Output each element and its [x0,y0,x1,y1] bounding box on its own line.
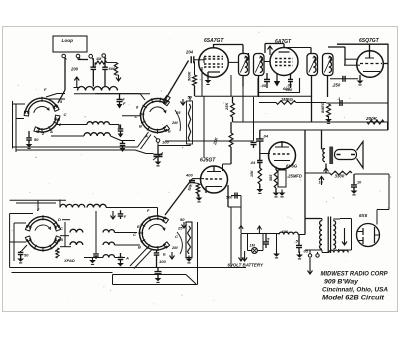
wire AVC from 500K [195,95,312,97]
svg-text:.04: .04 [250,161,256,165]
long vertical mid [203,96,205,158]
B minus arrow [308,258,313,274]
svg-text:XPAD: XPAD [63,258,75,263]
pilot lamp [247,234,249,251]
wire socket X2 top to trimmer diagonal [162,99,166,100]
svg-text:E: E [168,129,171,134]
chassis diagonal lower [130,247,148,266]
svg-text:100: 100 [159,259,166,264]
tube U3 6SQ7GT envelope [357,51,384,78]
wire trimmer to 6SA7 grid [195,59,205,61]
wire diagonal from socket X5 [165,179,192,215]
svg-text:400: 400 [185,173,193,178]
ground 50K [197,194,199,197]
svg-text:204: 204 [185,50,194,55]
arrows right socket X5 [182,222,187,228]
svg-text:6VOLT BATTERY: 6VOLT BATTERY [228,263,264,268]
svg-text:10K: 10K [250,170,254,177]
svg-text:C: C [64,112,67,117]
oscillator coils L1 [57,124,87,126]
capacitor A lower + ground [118,257,124,259]
tube U5 6V6G envelope [269,142,296,169]
svg-text:200: 200 [70,67,79,72]
chassis shield diagonal upper [138,132,149,147]
loop terminal 1 [62,54,66,58]
transformer bottoms [305,249,322,251]
wire B+ down to power transformer [304,130,306,235]
terminals output [308,254,311,257]
tube U1 6SA7GT envelope [199,48,229,78]
wire 6J5 cathode [205,187,207,194]
capacitor diode load [251,142,257,144]
wire 6SQ7 plate to B line [337,43,389,45]
svg-text:E: E [163,252,166,257]
IF transformer T2 can A [307,54,318,76]
wire can4 to 6SQ7 grid [328,46,345,48]
scan speckles [252,36,255,39]
speaker SP1 voice coil [335,150,357,160]
svg-text:500K: 500K [187,70,192,81]
tube U6 6X5 envelope [357,224,380,247]
ground under box [188,258,190,259]
svg-text:.05: .05 [261,83,267,88]
battery minus arrows [239,234,244,261]
wire 6SA7 plate to IF can [214,44,244,46]
transformer arrows [342,228,347,245]
tube U2 plate stub [283,44,285,48]
grid caps column [117,99,123,101]
svg-text:2M: 2M [171,120,178,125]
svg-text:Loop: Loop [62,38,74,43]
svg-text:.04: .04 [263,134,269,139]
ground battery [276,251,278,254]
bus rails [13,146,138,148]
svg-text:C: C [135,114,138,119]
tube U4 6J5GT envelope [201,166,228,193]
svg-text:585: 585 [269,174,273,181]
antenna coil L0 [78,87,118,91]
svg-text:6SA7GT: 6SA7GT [204,38,224,44]
svg-text:909 B'Way: 909 B'Way [324,279,358,286]
wire 6X5 plate [376,210,378,225]
svg-text:05: 05 [304,249,309,254]
transformer right box [351,219,353,251]
arrow at 6A7 grid [268,46,273,55]
box AVC under 6A7 [258,78,300,93]
socket X5 [139,216,167,250]
loop terminal 2 [76,54,80,58]
capacitor filter [296,245,302,247]
feed arrow right [258,226,260,234]
svg-text:6SQ7GT: 6SQ7GT [359,38,380,44]
svg-text:6X5: 6X5 [359,213,368,218]
wires socket X1 left [13,103,26,105]
svg-text:C: C [60,226,63,231]
svg-text:25K: 25K [224,102,229,111]
svg-text:6V6G: 6V6G [286,164,298,169]
ground 6SQ7 cathode [359,75,361,80]
svg-text:E: E [137,224,140,229]
small resistor osc [56,248,59,258]
ground grid resistor [259,186,261,189]
svg-text:100: 100 [162,140,169,145]
feed arrow left [239,226,243,230]
svg-text:D: D [58,217,61,222]
svg-text:50: 50 [24,253,29,258]
svg-text:B: B [139,124,142,129]
svg-text:B: B [138,245,141,250]
svg-text:Model 62B Circuit: Model 62B Circuit [322,295,385,302]
socket X2 RF [141,99,168,133]
wire right bus lower [388,174,390,210]
svg-text:600: 600 [283,86,290,91]
coil group B [103,230,115,233]
svg-text:B: B [60,237,63,242]
IF transformer T2 can B [323,54,334,76]
wire long horizontal AVC [233,121,388,123]
ground arrow cathode 6A7 [276,74,278,81]
speaker SP1 cone [357,142,364,169]
wire 6A7 top [265,43,284,45]
socket X1 oscillator-converter [25,98,57,113]
box under 6SA7 [201,67,203,96]
tube U1 plate stub [213,44,215,48]
grounds below 6V6 [275,188,277,192]
capacitor below socket X5 [156,250,158,253]
svg-text:C: C [175,234,178,239]
tube U1 cathode [208,71,220,73]
wire to 6V6 grid [260,153,270,155]
IF transformer T1 can A [239,54,250,76]
wire coupling vertical [240,196,242,234]
wire battery top [241,233,279,235]
arrows right of socket X2 [181,99,186,105]
svg-text:6J5GT: 6J5GT [200,158,216,164]
chassis arrow left [74,77,79,88]
svg-text:2M: 2M [171,245,178,250]
IF transformer T1 can B [254,54,265,76]
wire verticals IF secondary [242,86,244,122]
bottom rail C [113,284,198,286]
svg-text:500: 500 [226,196,233,200]
wire socket X4 top pin [37,200,39,211]
wire terminal2 to terminal3 [77,58,79,60]
ground below 8MEG [328,116,330,119]
coil group A [70,229,83,232]
wire can2 to 6A7 [264,61,270,63]
svg-text:.250: .250 [332,83,341,88]
wires coils to socket X5 [115,232,138,234]
bottom rail B [113,274,187,276]
output transformer T3 [321,130,323,149]
oscillator coil bank top row [59,200,61,208]
wire diagonal tuning [165,61,189,101]
loop terminal 3 [89,54,93,58]
capacitor middle [93,254,99,256]
wire transformer bottom [325,164,327,174]
svg-text:8MEG: 8MEG [321,102,325,113]
bottom rail A [10,267,246,269]
loop terminal 4 [102,54,106,58]
loop antenna box [53,36,87,52]
box bottom left [12,272,113,274]
wire T2 stubs [311,76,313,123]
resistor right [114,63,117,76]
wire 6SA7 to can1 [228,61,238,63]
wire loop terminal1 to socket X1 pin5 [64,58,66,90]
wires between coils [118,125,120,129]
wire 6A7 plate to can3 [284,47,311,49]
capacitor F grid lower [118,214,124,216]
wires socket X1 top [46,94,57,98]
power transformer T4 [305,218,322,220]
capacitor volume trimmer [157,146,159,155]
wire terminal right [158,145,191,147]
svg-text:C: C [133,232,136,237]
svg-text:1M: 1M [96,57,102,61]
wire speaker mouth junction [355,173,390,175]
wire y141 [165,140,254,142]
capacitor bottom center + ground [157,268,159,272]
wire plate supply line [326,102,389,104]
tube U3 plate structure [369,51,371,58]
svg-text:A: A [125,256,129,261]
svg-text:1M: 1M [250,244,256,248]
ground below 6SA7 [207,77,209,80]
left bus wires [12,101,14,149]
wire socket X2 left pin [122,115,142,117]
wire 6J5 plate down [227,185,229,207]
wires socket X4 right [62,219,70,221]
svg-text:50: 50 [34,137,39,142]
svg-text:MIDWEST RADIO CORP: MIDWEST RADIO CORP [321,271,389,278]
lower left outline wires [9,214,11,268]
ground filter [299,252,301,255]
wire y130 to right bus [260,129,388,131]
tube U2 6A7GT envelope [270,48,298,76]
svg-text:50: 50 [180,217,185,222]
cathode bypass box [278,170,286,187]
socket X4 [27,216,59,227]
svg-text:.25MFD: .25MFD [287,174,302,179]
socket X5 right box resistor [186,222,192,258]
capacitor 600 [104,57,106,67]
chassis arrow right [116,75,121,81]
ground left of XPAD [92,257,94,260]
stub terminal to socket [154,136,157,139]
wire right bus [387,44,389,130]
ground at 10 [353,188,355,191]
svg-text:Cincinnati, Ohio, USA: Cincinnati, Ohio, USA [322,287,388,294]
wire T1 bottom stubs [242,76,244,87]
wire middle vertical [95,211,97,253]
ground under trimmer cap [157,159,159,162]
svg-text:A: A [49,129,53,134]
terminal 100 volume [156,139,160,143]
